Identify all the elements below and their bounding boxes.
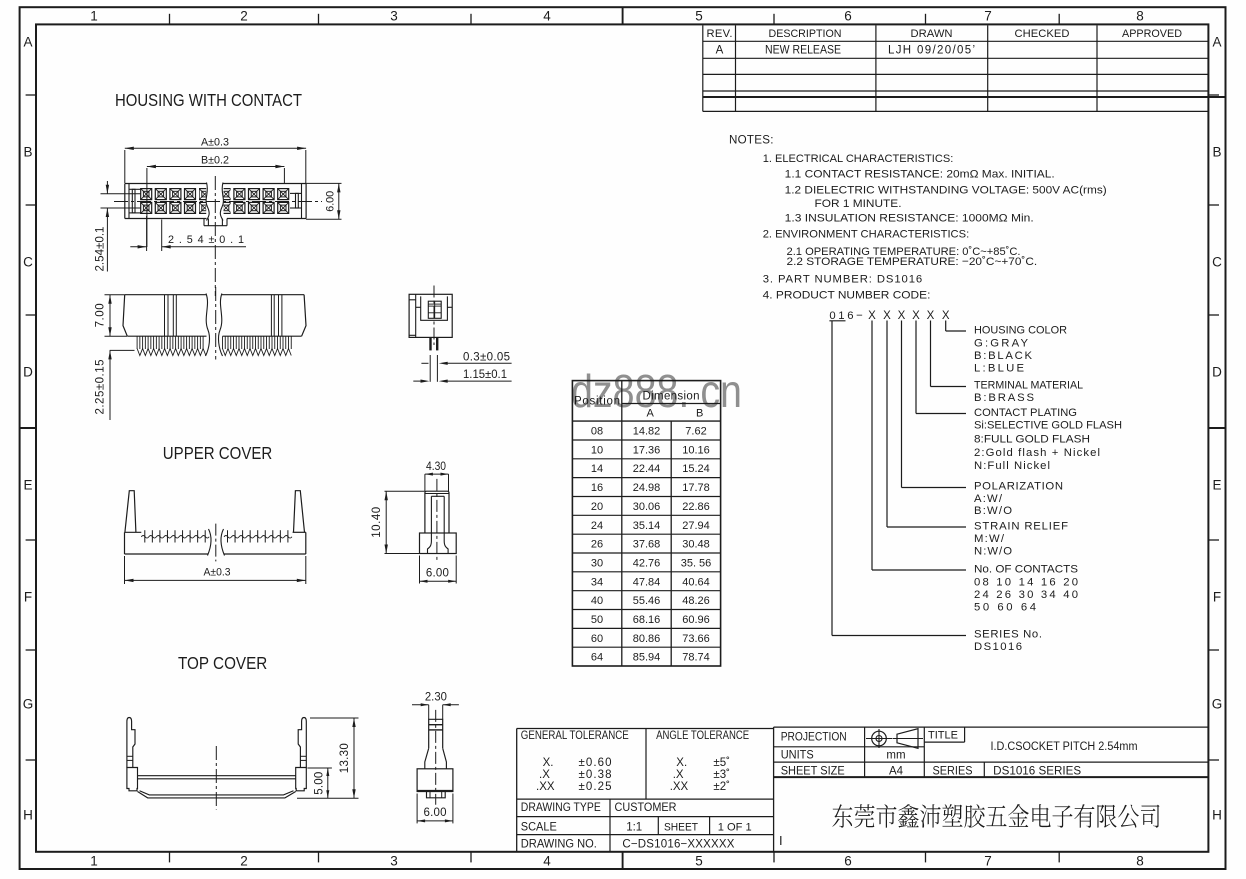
svg-text:6.00: 6.00: [424, 807, 447, 819]
svg-text:47.84: 47.84: [633, 576, 661, 588]
svg-text:E: E: [1212, 478, 1221, 493]
dim B±0.2 (housing): [146, 168, 148, 247]
svg-text:.XX: .XX: [536, 781, 555, 793]
upper cover side base: [420, 533, 457, 554]
svg-text:X: X: [912, 310, 920, 322]
svg-text:50: 50: [591, 614, 603, 626]
svg-text:I.D.CSOCKET PITCH 2.54mm: I.D.CSOCKET PITCH 2.54mm: [991, 741, 1138, 753]
housing side centerline: [215, 287, 217, 360]
svg-text:PROJECTION: PROJECTION: [781, 732, 847, 744]
svg-text:2.30: 2.30: [425, 692, 447, 704]
svg-text:6: 6: [844, 854, 852, 869]
svg-text:F: F: [24, 590, 32, 605]
stray mark: [780, 836, 782, 845]
housing right end wall: [301, 184, 303, 219]
svg-text:C: C: [1212, 255, 1222, 270]
svg-text:G: G: [1212, 697, 1223, 712]
svg-text:B: B: [696, 408, 703, 420]
top cover left latch: [127, 718, 135, 768]
svg-text:22.44: 22.44: [633, 463, 661, 475]
svg-text:22.86: 22.86: [682, 501, 710, 513]
svg-text:Si:SELECTIVE GOLD FLASH: Si:SELECTIVE GOLD FLASH: [974, 420, 1122, 432]
svg-text:TITLE: TITLE: [928, 730, 958, 742]
dim 7.00 (side): [105, 294, 125, 296]
end view pin extension lines: [429, 355, 431, 382]
dim 1.15±0.1: [444, 380, 512, 382]
svg-text:3. PART NUMBER: DS1016: 3. PART NUMBER: DS1016: [763, 274, 923, 286]
end view centerline: [433, 286, 435, 346]
svg-text:REV.: REV.: [707, 28, 733, 40]
svg-text:L:BLUE: L:BLUE: [974, 362, 1024, 374]
top cover side centerline: [435, 710, 437, 805]
svg-text:B: B: [23, 145, 32, 160]
top cover side flare and base: [425, 748, 429, 769]
svg-text:.XX: .XX: [670, 781, 689, 793]
dim 6.00 (top cover side): [416, 794, 418, 824]
svg-text:CUSTOMER: CUSTOMER: [615, 802, 677, 814]
svg-text:1:1: 1:1: [626, 821, 642, 833]
svg-text:73.66: 73.66: [682, 633, 710, 645]
product code underline under 016: [829, 320, 845, 322]
svg-text:H: H: [23, 808, 33, 823]
housing bottom tab: [203, 219, 205, 226]
svg-text:2:Gold flash + Nickel: 2:Gold flash + Nickel: [974, 447, 1100, 459]
housing centerlines: [114, 201, 322, 203]
svg-text:±3˚: ±3˚: [713, 769, 730, 781]
svg-text:8: 8: [1136, 8, 1144, 23]
dim A±0.3 (upper cover): [124, 556, 126, 584]
svg-text:G: G: [23, 697, 34, 712]
svg-text:10: 10: [591, 444, 603, 456]
svg-text:4. PRODUCT NUMBER CODE:: 4. PRODUCT NUMBER CODE:: [763, 289, 931, 301]
svg-text:±2˚: ±2˚: [713, 781, 730, 793]
svg-text:6.00: 6.00: [426, 568, 449, 580]
svg-text:30.06: 30.06: [633, 501, 661, 513]
svg-text:1.15±0.1: 1.15±0.1: [463, 369, 507, 381]
dim 6.00 (upper cover side): [419, 556, 421, 584]
svg-text:5.00: 5.00: [314, 772, 326, 795]
svg-text:1.2 DIELECTRIC WITHSTANDING: 1.2 DIELECTRIC WITHSTANDING VOLTAGE: 500…: [785, 184, 1107, 196]
dim 13.30 (top cover): [310, 717, 359, 719]
svg-text:.X: .X: [539, 769, 550, 781]
dimension table grid: [572, 381, 720, 666]
svg-text:CONTACT PLATING: CONTACT PLATING: [974, 407, 1077, 419]
ruler ticks bottom: [169, 852, 171, 863]
housing left end wall: [128, 184, 130, 219]
svg-text:UPPER COVER: UPPER COVER: [163, 443, 272, 463]
svg-text:68.16: 68.16: [633, 614, 661, 626]
svg-text:X.: X.: [543, 757, 554, 769]
svg-text:Dimension: Dimension: [643, 391, 700, 403]
svg-text:60: 60: [591, 633, 603, 645]
svg-text:N:W/O: N:W/O: [974, 545, 1012, 557]
svg-text:CHECKED: CHECKED: [1015, 28, 1070, 40]
svg-text:±0.38: ±0.38: [579, 769, 612, 781]
product code tree lines: [945, 321, 947, 332]
upper cover teeth: [144, 530, 146, 542]
svg-text:4.30: 4.30: [426, 461, 446, 473]
svg-text:X: X: [927, 310, 935, 322]
top cover side column: [429, 719, 443, 748]
svg-text:42.76: 42.76: [633, 557, 661, 569]
svg-text:16: 16: [591, 482, 603, 494]
svg-text:C−DS1016−XXXXXX: C−DS1016−XXXXXX: [622, 839, 734, 851]
svg-text:D: D: [1212, 365, 1222, 380]
svg-text:64: 64: [591, 652, 603, 664]
svg-text:1: 1: [90, 854, 98, 869]
end view socket cavity: [421, 296, 448, 320]
svg-text:H: H: [1212, 808, 1222, 823]
upper cover bar outline: [125, 531, 142, 533]
svg-text:40.64: 40.64: [682, 576, 710, 588]
svg-text:STRAIN RELIEF: STRAIN RELIEF: [974, 521, 1068, 533]
svg-text:B:BLACK: B:BLACK: [974, 350, 1032, 362]
svg-text:34: 34: [591, 576, 603, 588]
svg-text:2.54±0.1: 2.54±0.1: [94, 227, 106, 272]
svg-text:55.46: 55.46: [633, 595, 661, 607]
svg-text:6.00: 6.00: [325, 191, 337, 212]
revision table grid: [703, 40, 1209, 42]
svg-text:0.3±0.05: 0.3±0.05: [463, 351, 510, 363]
svg-text:4: 4: [543, 854, 551, 869]
svg-text:TERMINAL MATERIAL: TERMINAL MATERIAL: [974, 380, 1083, 392]
svg-text:10.16: 10.16: [682, 444, 710, 456]
svg-text:3: 3: [390, 8, 398, 23]
svg-text:FOR 1 MINUTE.: FOR 1 MINUTE.: [815, 198, 902, 210]
svg-text:NEW RELEASE: NEW RELEASE: [765, 45, 841, 57]
svg-text:SCALE: SCALE: [521, 821, 557, 833]
svg-text:2: 2: [240, 8, 248, 23]
svg-text:F: F: [1213, 590, 1221, 605]
svg-text:08: 08: [591, 426, 603, 438]
svg-text:SERIES: SERIES: [933, 766, 973, 778]
svg-text:1 OF 1: 1 OF 1: [718, 821, 752, 833]
svg-text:N:Full Nickel: N:Full Nickel: [974, 460, 1050, 472]
dim A±0.3 (housing): [124, 150, 126, 183]
svg-text:4: 4: [543, 8, 551, 23]
svg-text:A: A: [1212, 35, 1221, 50]
dim 2.25±0.15 (side): [110, 349, 135, 351]
svg-text:2.2 STORAGE TEMPERATURE: −2: 2.2 STORAGE TEMPERATURE: −20˚C~+70˚C.: [787, 256, 1038, 268]
svg-text:5: 5: [695, 854, 703, 869]
svg-text:HOUSING WITH CONTACT: HOUSING WITH CONTACT: [115, 90, 302, 110]
svg-text:HOUSING COLOR: HOUSING COLOR: [974, 324, 1067, 336]
svg-text:14.82: 14.82: [633, 426, 661, 438]
top cover tray bottom: [140, 791, 294, 795]
svg-text:7.00: 7.00: [95, 303, 107, 327]
svg-text:C: C: [23, 255, 33, 270]
svg-text:80.86: 80.86: [633, 633, 661, 645]
svg-text:15.24: 15.24: [682, 463, 710, 475]
svg-text:40: 40: [591, 595, 603, 607]
svg-text:A±0.3: A±0.3: [204, 566, 231, 578]
svg-text:8:FULL GOLD FLASH: 8:FULL GOLD FLASH: [974, 433, 1090, 445]
svg-text:5: 5: [695, 8, 703, 23]
svg-text:DRAWN: DRAWN: [911, 28, 953, 40]
svg-text:SERIES No.: SERIES No.: [974, 629, 1042, 641]
top cover centerline: [215, 746, 217, 810]
housing side pins: [136, 336, 138, 349]
svg-text:13.30: 13.30: [339, 743, 351, 773]
svg-text:X: X: [883, 310, 891, 322]
dim 10.40: [385, 490, 425, 492]
svg-text:LJH 09/20/05’: LJH 09/20/05’: [888, 45, 975, 57]
end view contact: [428, 301, 441, 318]
svg-text:8: 8: [1136, 854, 1144, 869]
top cover bar: [138, 775, 296, 777]
svg-text:85.94: 85.94: [633, 652, 661, 664]
svg-text:±0.60: ±0.60: [579, 757, 612, 769]
svg-text:A±0.3: A±0.3: [201, 137, 229, 149]
upper cover side column: [425, 491, 449, 533]
svg-text:35. 56: 35. 56: [681, 557, 712, 569]
svg-text:DESCRIPTION: DESCRIPTION: [769, 28, 842, 40]
svg-text:E: E: [23, 478, 32, 493]
svg-text:3: 3: [390, 854, 398, 869]
svg-text:17.78: 17.78: [682, 482, 710, 494]
projection symbol: [872, 731, 887, 746]
dim 6.00 (housing): [306, 182, 341, 184]
svg-text:7: 7: [984, 854, 992, 869]
housing end view outline: [409, 294, 452, 337]
svg-text:DRAWING TYPE: DRAWING TYPE: [521, 802, 601, 814]
svg-text:30: 30: [591, 557, 603, 569]
dim 0.3±0.05: [444, 362, 512, 364]
svg-text:1.3 INSULATION RESISTANCE:: 1.3 INSULATION RESISTANCE: 1000MΩ Min.: [785, 213, 1034, 225]
ruler ticks right: [1208, 94, 1219, 96]
svg-text:APPROVED: APPROVED: [1122, 28, 1182, 40]
svg-text:A: A: [716, 45, 724, 57]
svg-text:Position: Position: [574, 396, 620, 408]
svg-text:POLARIZATION: POLARIZATION: [974, 481, 1063, 493]
svg-text:14: 14: [591, 463, 603, 475]
svg-text:6: 6: [844, 8, 852, 23]
housing top view outline: [125, 183, 207, 185]
housing side break lines: [206, 294, 210, 357]
housing side view body: [125, 294, 206, 296]
svg-text:1.1 CONTACT RESISTANCE: 20m: 1.1 CONTACT RESISTANCE: 20mΩ Max. INITIA…: [785, 168, 1055, 180]
svg-text:2. ENVIRONMENT CHARACTERISTI: 2. ENVIRONMENT CHARACTERISTICS:: [763, 228, 970, 240]
title block grid: [517, 728, 774, 730]
svg-text:1: 1: [90, 8, 98, 23]
svg-text:2.25±0.15: 2.25±0.15: [94, 360, 106, 415]
svg-text:UNITS: UNITS: [781, 750, 814, 762]
svg-text:A: A: [23, 35, 32, 50]
company name (CJK paths): [832, 804, 1159, 828]
dim 2.54±0.1 horizontal (housing): [146, 216, 148, 251]
svg-text:10.40: 10.40: [371, 507, 383, 538]
svg-text:TOP COVER: TOP COVER: [178, 653, 267, 673]
svg-text:60.96: 60.96: [682, 614, 710, 626]
upper cover right prong: [294, 491, 305, 533]
svg-text:.X: .X: [673, 769, 684, 781]
svg-text:M:W/: M:W/: [974, 533, 1005, 545]
svg-text:G:GRAY: G:GRAY: [974, 337, 1028, 349]
svg-text:1. ELECTRICAL CHARACTERISTIC: 1. ELECTRICAL CHARACTERISTICS:: [763, 153, 954, 165]
ruler ticks left: [26, 94, 36, 96]
svg-text:mm: mm: [886, 750, 905, 762]
svg-text:SHEET: SHEET: [664, 821, 698, 833]
svg-text:A:W/: A:W/: [974, 493, 1003, 505]
svg-text:DS1016: DS1016: [974, 641, 1022, 653]
svg-text:B:W/O: B:W/O: [974, 505, 1012, 517]
svg-text:ANGLE TOLERANCE: ANGLE TOLERANCE: [656, 730, 749, 742]
svg-text:78.74: 78.74: [682, 652, 710, 664]
svg-text:24.98: 24.98: [633, 482, 661, 494]
upper cover side centerline: [436, 479, 438, 561]
upper cover centerline: [215, 524, 217, 562]
housing contacts left group: [141, 189, 152, 200]
end view pins: [429, 337, 431, 350]
svg-text:B: B: [1212, 145, 1221, 160]
dim 5.00 (top cover): [307, 767, 332, 769]
svg-text:±0.25: ±0.25: [579, 781, 612, 793]
svg-text:26: 26: [591, 539, 603, 551]
upper cover left prong: [125, 491, 136, 533]
housing break lines: [206, 183, 209, 221]
svg-text:7.62: 7.62: [685, 426, 706, 438]
svg-text:24: 24: [591, 520, 603, 532]
dim 2.54±0.1 vertical (housing rows): [101, 193, 141, 195]
ruler ticks top: [169, 14, 171, 25]
upper cover break lines: [208, 529, 212, 556]
svg-text:X.: X.: [676, 757, 687, 769]
svg-text:48.26: 48.26: [682, 595, 710, 607]
svg-text:20: 20: [591, 501, 603, 513]
svg-text:±5˚: ±5˚: [713, 757, 730, 769]
svg-text:DRAWING NO.: DRAWING NO.: [521, 839, 597, 851]
svg-text:X: X: [868, 310, 876, 322]
svg-text:A: A: [647, 408, 655, 420]
svg-text:SHEET SIZE: SHEET SIZE: [781, 766, 845, 778]
svg-text:37.68: 37.68: [633, 539, 661, 551]
svg-text:D: D: [23, 365, 33, 380]
top cover right latch: [298, 718, 306, 768]
svg-text:7: 7: [984, 8, 992, 23]
svg-text:No. OF CONTACTS: No. OF CONTACTS: [974, 564, 1078, 576]
svg-text:DS1016 SERIES: DS1016 SERIES: [993, 766, 1081, 778]
svg-text:GENERAL TOLERANCE: GENERAL TOLERANCE: [521, 730, 629, 742]
svg-text:30.48: 30.48: [682, 539, 710, 551]
svg-text:27.94: 27.94: [682, 520, 710, 532]
svg-text:35.14: 35.14: [633, 520, 661, 532]
svg-text:X: X: [942, 310, 950, 322]
svg-text:17.36: 17.36: [633, 444, 661, 456]
housing side key grooves: [164, 295, 166, 337]
svg-text:X: X: [898, 310, 906, 322]
svg-text:B±0.2: B±0.2: [201, 155, 229, 167]
svg-text:NOTES:: NOTES:: [729, 134, 774, 147]
svg-text:A4: A4: [889, 766, 904, 778]
svg-text:2: 2: [240, 854, 248, 869]
